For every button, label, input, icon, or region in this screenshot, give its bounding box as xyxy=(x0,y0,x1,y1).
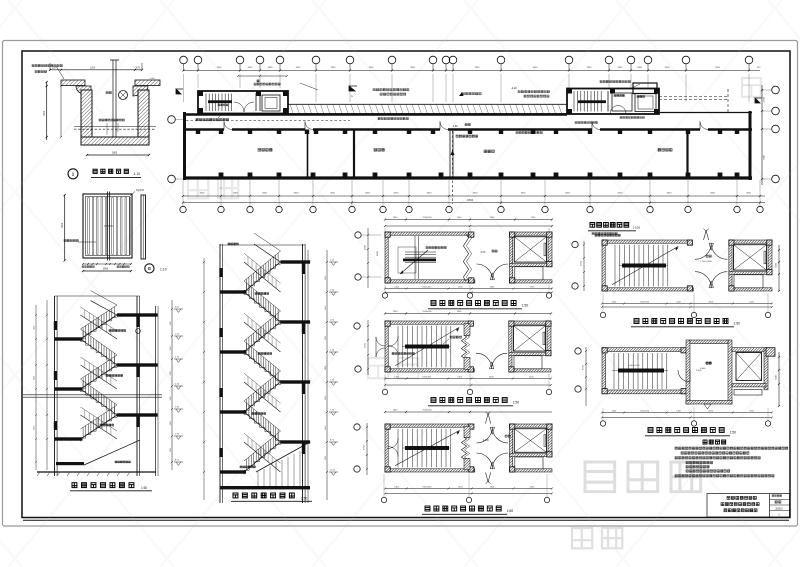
svg-text:1450: 1450 xyxy=(34,376,36,380)
svg-text:1450: 1450 xyxy=(325,276,327,280)
svg-text:3300: 3300 xyxy=(248,67,254,69)
svg-text:7050x350: 7050x350 xyxy=(422,286,432,288)
svg-text:3300: 3300 xyxy=(587,67,593,69)
svg-text:3300: 3300 xyxy=(369,67,375,69)
svg-text:3300: 3300 xyxy=(331,67,337,69)
svg-text:3300: 3300 xyxy=(262,193,268,195)
svg-text:1:50: 1:50 xyxy=(141,486,147,490)
svg-text:-4.20: -4.20 xyxy=(511,87,517,90)
svg-text:1450: 1450 xyxy=(170,346,172,350)
svg-text:1:50: 1:50 xyxy=(301,497,307,501)
svg-text:1450: 1450 xyxy=(325,306,327,310)
svg-text:3300: 3300 xyxy=(296,67,302,69)
svg-text:1:50: 1:50 xyxy=(522,304,529,308)
svg-text:3300: 3300 xyxy=(475,67,481,69)
svg-text:3300: 3300 xyxy=(667,193,673,195)
svg-text:6@200: 6@200 xyxy=(136,189,145,192)
svg-text:10.20: 10.20 xyxy=(330,470,336,472)
svg-text:3300: 3300 xyxy=(746,193,752,195)
svg-text:3300: 3300 xyxy=(200,193,206,195)
svg-text:0.000: 0.000 xyxy=(700,368,706,370)
svg-text:1800: 1800 xyxy=(62,222,64,228)
svg-text:1:10: 1:10 xyxy=(134,172,141,176)
svg-text:1450: 1450 xyxy=(34,326,36,330)
svg-text:3300: 3300 xyxy=(618,67,624,69)
svg-text:2005.6: 2005.6 xyxy=(775,507,783,510)
svg-text:4.150: 4.150 xyxy=(483,440,489,442)
svg-text:1:50: 1:50 xyxy=(513,401,520,405)
svg-text:1450: 1450 xyxy=(325,456,327,460)
svg-text:7050x350: 7050x350 xyxy=(422,410,432,412)
svg-text:3300: 3300 xyxy=(365,193,371,195)
svg-text:3300: 3300 xyxy=(410,67,416,69)
svg-text:3300: 3300 xyxy=(565,193,571,195)
svg-text:1:50: 1:50 xyxy=(507,509,514,513)
svg-text:7400: 7400 xyxy=(764,154,766,160)
svg-text:3300: 3300 xyxy=(533,67,539,69)
svg-text:3300: 3300 xyxy=(233,193,239,195)
svg-text:7050x350: 7050x350 xyxy=(640,301,650,303)
svg-text:3300: 3300 xyxy=(715,67,721,69)
svg-text:1450: 1450 xyxy=(170,421,172,425)
svg-text:3300: 3300 xyxy=(294,193,300,195)
svg-text:3000: 3000 xyxy=(103,269,109,271)
svg-text:3300: 3300 xyxy=(427,193,433,195)
svg-text:1450: 1450 xyxy=(170,448,172,452)
svg-text:7050x350: 7050x350 xyxy=(422,217,432,219)
svg-text:1450: 1450 xyxy=(325,366,327,370)
svg-text:7050x350: 7050x350 xyxy=(422,486,432,488)
svg-text:1450: 1450 xyxy=(325,426,327,430)
svg-text:0.000: 0.000 xyxy=(696,370,702,372)
svg-text:1.750-0.050: 1.750-0.050 xyxy=(700,261,712,263)
svg-text:2700: 2700 xyxy=(764,96,766,102)
svg-text:7050x350: 7050x350 xyxy=(640,410,650,412)
svg-text:3300: 3300 xyxy=(618,193,624,195)
svg-text:1450: 1450 xyxy=(170,371,172,375)
svg-text:1450: 1450 xyxy=(325,396,327,400)
svg-text:9x300=2700: 9x300=2700 xyxy=(628,365,640,367)
svg-text:3300: 3300 xyxy=(637,67,643,69)
svg-text:3300: 3300 xyxy=(473,193,479,195)
svg-text:-0.05: -0.05 xyxy=(150,78,156,80)
svg-text:1:50: 1:50 xyxy=(733,322,740,326)
svg-text:3300: 3300 xyxy=(665,67,671,69)
svg-text:3300: 3300 xyxy=(710,193,716,195)
svg-text:3300: 3300 xyxy=(217,67,223,69)
svg-text:1450: 1450 xyxy=(170,321,172,325)
svg-text:1:100: 1:100 xyxy=(633,226,641,230)
svg-text:1200: 1200 xyxy=(90,67,96,69)
svg-text:1450: 1450 xyxy=(34,426,36,430)
svg-text:-4.50: -4.50 xyxy=(480,252,486,254)
svg-text:1500: 1500 xyxy=(44,110,46,116)
svg-text:1450: 1450 xyxy=(170,396,172,400)
svg-text:G: G xyxy=(148,266,151,271)
svg-text:1800: 1800 xyxy=(112,152,118,154)
svg-text:7050x350: 7050x350 xyxy=(422,376,432,378)
svg-text:1:50: 1:50 xyxy=(730,431,737,435)
svg-text:3300: 3300 xyxy=(394,193,400,195)
svg-text:3300: 3300 xyxy=(330,193,336,195)
svg-text:3300: 3300 xyxy=(521,193,527,195)
svg-text:1:10: 1:10 xyxy=(160,268,167,272)
svg-text:3300: 3300 xyxy=(268,67,274,69)
svg-text:49500: 49500 xyxy=(467,200,474,202)
svg-text:1450: 1450 xyxy=(325,336,327,340)
svg-text:7050x350: 7050x350 xyxy=(422,311,432,313)
svg-text:-4.80: -4.80 xyxy=(452,125,458,128)
